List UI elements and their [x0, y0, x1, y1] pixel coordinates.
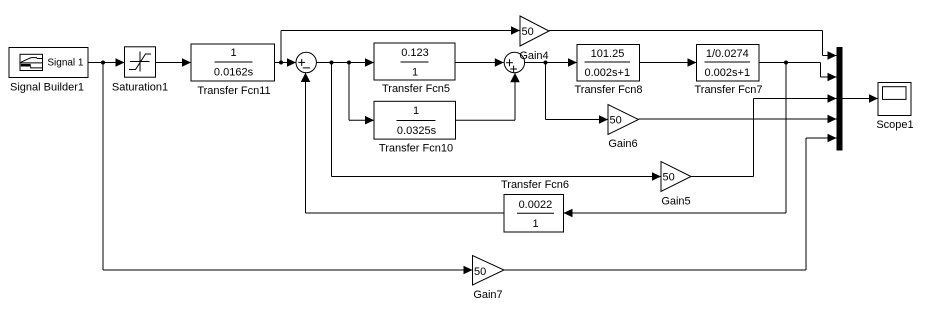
wire Transfer Fcn5 to sum Sum2 [455, 58, 504, 67]
wire Gain7 to mux input 5 [504, 134, 837, 270]
wire branch down to Gain7 [103, 63, 473, 275]
svg-text:0.0162s: 0.0162s [214, 67, 254, 79]
scope Scope1 [878, 83, 911, 116]
wire Sum1 output [316, 58, 374, 67]
wire branch to Gain6 [546, 63, 609, 124]
saturation Saturation1 [125, 47, 156, 77]
svg-text:Signal Builder1: Signal Builder1 [10, 82, 84, 94]
gain Gain6 [608, 105, 639, 135]
wire feedforward to Gain4 [281, 26, 520, 62]
wire Signal Builder1 to Saturation1 [88, 58, 125, 67]
svg-text:Gain5: Gain5 [661, 196, 690, 208]
svg-text:Transfer Fcn5: Transfer Fcn5 [382, 83, 450, 95]
svg-text:Transfer Fcn6: Transfer Fcn6 [501, 179, 569, 191]
junction node [330, 61, 334, 65]
wire Gain6 to mux input 4 [639, 115, 837, 124]
svg-text:Scope1: Scope1 [876, 119, 913, 131]
svg-text:Gain4: Gain4 [519, 50, 548, 62]
svg-text:1: 1 [413, 105, 419, 117]
gain Gain5 [661, 162, 691, 192]
svg-text:50: 50 [522, 26, 534, 38]
transfer function Transfer Fcn6 [504, 195, 564, 233]
wire feedback to Transfer Fcn6 [564, 63, 787, 218]
sum Sum1 [296, 52, 316, 72]
transfer function Transfer Fcn5 [374, 43, 455, 80]
junction node [544, 61, 548, 65]
svg-text:Signal 1: Signal 1 [47, 58, 84, 69]
svg-text:50: 50 [663, 172, 675, 184]
gain Gain7 [473, 256, 505, 286]
svg-text:0.002s+1: 0.002s+1 [705, 67, 751, 79]
svg-text:1: 1 [532, 218, 538, 230]
svg-text:Transfer Fcn11: Transfer Fcn11 [197, 85, 270, 97]
wire Saturation1 to Transfer Fcn11 [156, 58, 192, 67]
svg-text:Transfer Fcn8: Transfer Fcn8 [574, 84, 642, 96]
svg-text:1/0.0274: 1/0.0274 [706, 48, 749, 60]
wire Transfer Fcn6 to Sum1 minus input [301, 73, 504, 214]
wire Transfer Fcn7 to mux input 2 [759, 63, 837, 82]
svg-text:1: 1 [412, 67, 418, 79]
svg-text:Transfer Fcn10: Transfer Fcn10 [379, 143, 453, 155]
svg-text:Gain6: Gain6 [608, 138, 637, 150]
junction node [279, 61, 283, 65]
svg-text:Saturation1: Saturation1 [112, 81, 168, 93]
wire Transfer Fcn11 to sum Sum1 [275, 58, 297, 67]
transfer function Transfer Fcn8 [577, 45, 640, 82]
wire Gain4 to mux input 1 [549, 31, 837, 60]
wire Mux to Scope1 [843, 94, 879, 103]
transfer function Transfer Fcn10 [374, 101, 456, 139]
wire Sum2 output to Transfer Fcn8 [525, 58, 577, 67]
wire branch to Transfer Fcn10 [349, 63, 374, 125]
transfer function Transfer Fcn11 [191, 44, 275, 81]
svg-text:1: 1 [230, 47, 236, 59]
wire Gain5 to mux input 3 [691, 94, 837, 176]
transfer function Transfer Fcn7 [697, 45, 760, 82]
junction node [101, 61, 105, 65]
junction node [784, 61, 788, 65]
svg-text:101.25: 101.25 [591, 48, 625, 60]
mux Mux1 [837, 47, 843, 151]
junction node [347, 61, 351, 65]
svg-text:0.002s+1: 0.002s+1 [585, 67, 631, 79]
svg-text:Gain7: Gain7 [473, 289, 502, 301]
svg-text:0.0022: 0.0022 [519, 199, 553, 211]
svg-text:0.0325s: 0.0325s [397, 125, 437, 137]
signal builder Signal Builder1 [9, 48, 88, 78]
svg-text:50: 50 [474, 266, 486, 278]
svg-text:0.123: 0.123 [401, 47, 429, 59]
wire Transfer Fcn10 to sum Sum2 [456, 73, 520, 120]
wire branch to Gain5 [332, 63, 662, 181]
svg-text:50: 50 [610, 115, 622, 127]
svg-text:Transfer Fcn7: Transfer Fcn7 [694, 84, 762, 96]
sum Sum2 [504, 52, 524, 72]
gain Gain4 [520, 16, 549, 46]
wire Transfer Fcn8 to Transfer Fcn7 [640, 58, 697, 67]
